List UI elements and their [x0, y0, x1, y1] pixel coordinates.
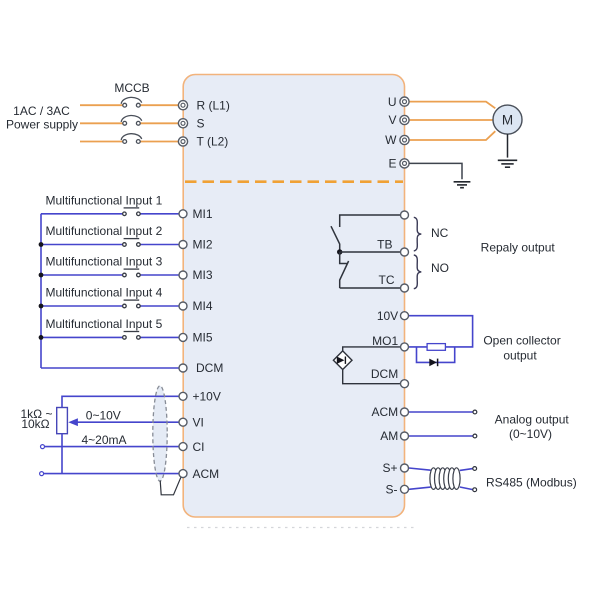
potentiometer RP1	[57, 408, 68, 434]
svg-text:1AC / 3AC: 1AC / 3AC	[13, 104, 70, 118]
breaker MCCB pole 2	[121, 115, 142, 125]
ground symbol E	[454, 182, 471, 188]
terminal MI1	[179, 210, 187, 218]
terminal +10V	[179, 392, 187, 400]
brace NO	[414, 255, 422, 289]
svg-text:W: W	[385, 133, 397, 147]
svg-text:+10V: +10V	[193, 390, 221, 404]
svg-text:R (L1): R (L1)	[197, 98, 230, 112]
terminal W	[400, 135, 409, 144]
shield ellipse dashed stroke	[153, 386, 167, 481]
wire VI wiper	[78, 421, 180, 423]
svg-text:T (L2): T (L2)	[197, 135, 229, 149]
svg-text:AM: AM	[380, 429, 398, 443]
svg-text:TC: TC	[379, 273, 395, 287]
wire V output	[409, 119, 493, 121]
svg-text:Multifunctional Input 1: Multifunctional Input 1	[46, 193, 163, 207]
terminal S+	[401, 464, 409, 472]
node CI source	[41, 445, 45, 449]
switch SW4	[123, 300, 141, 308]
svg-text:S: S	[197, 117, 205, 131]
svg-text:U: U	[388, 95, 397, 109]
terminal S-	[401, 485, 409, 493]
shield ellipse fill	[153, 386, 167, 481]
wire DCM left	[41, 367, 179, 369]
svg-text:10kΩ: 10kΩ	[21, 417, 49, 431]
resistor R1	[427, 344, 445, 351]
svg-text:MI2: MI2	[193, 238, 213, 252]
svg-text:NC: NC	[431, 226, 449, 240]
terminal relay top	[401, 211, 409, 219]
svg-text:S+: S+	[382, 461, 397, 475]
terminal T (L2)	[178, 137, 187, 146]
breaker MCCB pole 1	[121, 97, 142, 107]
wire S- right	[460, 487, 473, 490]
svg-text:RS485 (Modbus): RS485 (Modbus)	[486, 476, 577, 490]
wire S phase left	[80, 122, 179, 124]
terminal MO1	[401, 343, 409, 351]
terminal VI	[179, 418, 187, 426]
terminal MI4	[179, 302, 187, 310]
svg-text:CI: CI	[193, 440, 205, 454]
node ACM source	[40, 472, 44, 476]
svg-text:10V: 10V	[377, 309, 398, 323]
svg-text:MO1: MO1	[372, 334, 398, 348]
terminal ACM left	[179, 470, 187, 478]
terminal AM	[401, 432, 409, 440]
wire S+ right	[460, 469, 473, 471]
wire MI3	[41, 274, 179, 276]
wire +10V to potentiometer	[62, 396, 179, 407]
terminal TB	[401, 248, 409, 256]
wire MO1 to resistor	[409, 346, 427, 348]
terminal DCM right	[401, 380, 409, 388]
svg-text:0~10V: 0~10V	[86, 408, 121, 422]
wire MI4	[41, 305, 179, 307]
switch SW1	[123, 208, 141, 216]
junction node MI3	[39, 273, 44, 278]
terminal CI	[179, 443, 187, 451]
switch SW5	[123, 332, 141, 340]
terminal S	[178, 119, 187, 128]
svg-text:MCCB: MCCB	[114, 81, 149, 95]
twisted pair coil	[430, 468, 460, 490]
diode D1	[429, 359, 437, 367]
ground symbol motor	[498, 160, 517, 167]
relay wire top fixed contact	[340, 215, 401, 227]
svg-text:NO: NO	[431, 261, 449, 275]
wire TB	[340, 251, 401, 253]
terminal DCM left	[179, 364, 187, 372]
terminal R (L1)	[178, 101, 187, 110]
svg-text:ACM: ACM	[372, 405, 399, 419]
svg-text:M: M	[502, 113, 513, 128]
current source symbol	[333, 351, 352, 370]
svg-text:output: output	[503, 348, 537, 362]
terminal MI3	[179, 271, 187, 279]
wire CI	[45, 446, 180, 448]
svg-text:ACM: ACM	[193, 467, 220, 481]
svg-text:DCM: DCM	[196, 361, 223, 375]
svg-text:VI: VI	[193, 415, 204, 429]
terminal ACM right	[401, 408, 409, 416]
node AM analog end	[473, 434, 477, 438]
dashed separator line	[185, 180, 403, 183]
node S+ end	[473, 467, 477, 471]
motor M1	[493, 105, 522, 134]
svg-text:(0~10V): (0~10V)	[509, 427, 552, 441]
junction node MI4	[39, 304, 44, 309]
terminal TC	[401, 284, 409, 292]
svg-text:Power supply: Power supply	[6, 118, 78, 132]
wire MI1	[41, 213, 179, 215]
wire T phase left	[80, 141, 179, 143]
terminal 10V	[401, 312, 409, 320]
svg-text:TB: TB	[377, 238, 392, 252]
junction node TB	[337, 249, 342, 254]
breaker MCCB pole 3	[121, 134, 142, 144]
svg-text:MI4: MI4	[193, 299, 213, 313]
wire U output	[409, 102, 495, 109]
wire potentiometer bottom	[61, 434, 63, 474]
wire W output	[409, 131, 495, 140]
wire TC	[340, 287, 401, 289]
wire S+	[409, 468, 431, 470]
brace NC	[414, 217, 422, 251]
svg-text:Multifunctional Input 3: Multifunctional Input 3	[46, 255, 163, 269]
wire common bus MI	[40, 214, 42, 368]
svg-text:Analog output: Analog output	[495, 413, 570, 427]
node S- end	[473, 488, 477, 492]
junction node MI2	[39, 242, 44, 247]
wire current source to MO1	[343, 347, 401, 351]
wire MI5	[41, 336, 179, 338]
faint shadow line below block	[187, 527, 414, 529]
terminal V	[400, 115, 409, 124]
svg-text:Repaly output: Repaly output	[481, 241, 556, 255]
wire R phase left	[80, 102, 495, 142]
switch SW2	[123, 239, 141, 247]
wire current source to DCM	[343, 370, 401, 384]
svg-text:MI1: MI1	[193, 207, 213, 221]
wire diode loop	[417, 347, 455, 363]
svg-text:Multifunctional Input 4: Multifunctional Input 4	[46, 286, 163, 300]
svg-text:S-: S-	[386, 483, 398, 497]
wire E to ground	[409, 163, 462, 179]
wire ACM analog	[409, 411, 473, 413]
wire MI2	[41, 244, 179, 246]
svg-text:DCM: DCM	[371, 367, 398, 381]
switch SW3	[123, 269, 141, 277]
wire motor ground	[507, 134, 509, 158]
inverter main block U0	[183, 75, 404, 518]
relay blade NC	[331, 226, 340, 252]
svg-text:MI3: MI3	[193, 268, 213, 282]
junction node MI5	[39, 335, 44, 340]
wire 10V loop	[409, 316, 473, 347]
node ACM analog end	[473, 410, 477, 414]
arrow wiper	[68, 418, 78, 426]
svg-text:E: E	[388, 157, 396, 171]
svg-text:V: V	[388, 113, 396, 127]
terminal MI5	[179, 333, 187, 341]
terminal MI2	[179, 241, 187, 249]
svg-text:MI5: MI5	[193, 331, 213, 345]
svg-text:Multifunctional Input 2: Multifunctional Input 2	[46, 224, 163, 238]
svg-text:Open collector: Open collector	[483, 334, 560, 348]
wire S-	[409, 487, 431, 489]
terminal U	[400, 97, 409, 106]
relay contact NO	[340, 252, 349, 288]
terminal E	[400, 159, 409, 168]
wire ACM left	[44, 473, 179, 475]
svg-text:4~20mA: 4~20mA	[81, 433, 126, 447]
wire shield drain	[160, 476, 181, 495]
wire AM analog	[409, 435, 473, 437]
svg-text:Multifunctional Input 5: Multifunctional Input 5	[46, 317, 163, 331]
